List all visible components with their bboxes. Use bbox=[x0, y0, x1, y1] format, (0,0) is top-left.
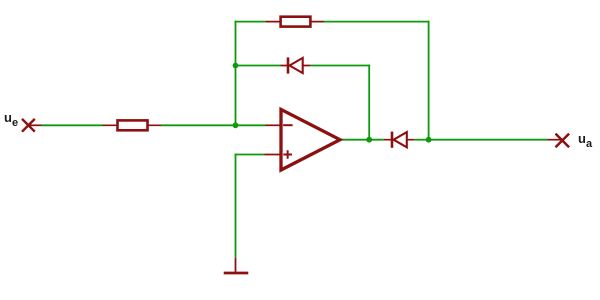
resistor R2 bbox=[266, 17, 325, 27]
wire feedback vertical to output bbox=[368, 65, 370, 140]
wire top left bbox=[235, 21, 266, 23]
wire left vertical feedback bbox=[235, 21, 237, 126]
pin stub plus input bbox=[265, 154, 282, 156]
wire plus vertical to ground bbox=[235, 154, 237, 258]
wire top right bbox=[324, 21, 430, 23]
wire diode level left bbox=[236, 65, 281, 67]
node junction op-amp output bbox=[366, 137, 372, 143]
wire op-amp output bbox=[341, 139, 384, 141]
resistor R1 bbox=[103, 120, 162, 130]
op-amp U1 bbox=[281, 109, 340, 170]
diode D1 feedback bbox=[281, 57, 311, 73]
node junction right bbox=[426, 137, 432, 143]
port X output bbox=[556, 134, 570, 148]
wire plus input horizontal bbox=[235, 154, 265, 156]
wire diode level right bbox=[310, 65, 370, 67]
node junction at minus input bbox=[233, 122, 239, 128]
wire input to minus junction bbox=[161, 124, 266, 126]
wire input left bbox=[42, 124, 103, 126]
port X input bbox=[22, 119, 35, 132]
wire diode to right junction bbox=[414, 139, 428, 141]
node junction at diode branch bbox=[233, 63, 239, 69]
label u_a bbox=[578, 132, 592, 146]
label u_e bbox=[4, 111, 18, 125]
ground bbox=[224, 258, 249, 273]
pin stub input port bbox=[28, 124, 41, 126]
pin stub output port bbox=[548, 139, 563, 141]
wire right vertical bbox=[428, 21, 430, 140]
diode D2 output bbox=[384, 132, 414, 148]
wire output right bbox=[429, 139, 548, 141]
pin stub minus input bbox=[266, 124, 282, 126]
